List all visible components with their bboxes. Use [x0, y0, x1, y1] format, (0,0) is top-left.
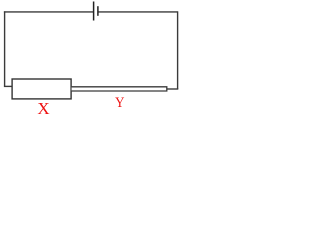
wire top-right segment	[98, 11, 178, 13]
battery cell B1 short plate	[97, 6, 99, 16]
wire left stub to resistor X	[4, 85, 13, 87]
resistor X (box)	[12, 79, 71, 99]
battery cell B1 long plate	[93, 2, 95, 21]
wire bottom-right connector to Y	[167, 88, 178, 90]
wire left vertical	[4, 11, 6, 86]
wire right vertical	[177, 11, 179, 89]
wire top-left segment	[4, 11, 94, 13]
resistor Y (resistance wire, thin box)	[72, 87, 167, 91]
svg-text:Y: Y	[115, 95, 124, 111]
svg-text:X: X	[37, 99, 49, 118]
